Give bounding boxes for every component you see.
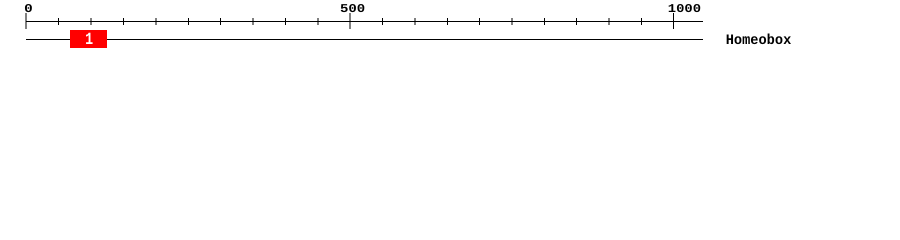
tick 900 bbox=[609, 18, 610, 25]
domain box 1 (red) bbox=[70, 30, 107, 48]
tick 700 bbox=[479, 18, 480, 25]
background bbox=[0, 0, 900, 58]
tick 50 bbox=[58, 18, 59, 25]
tick 400 bbox=[285, 18, 286, 25]
tick 550 bbox=[382, 18, 383, 25]
tick 650 bbox=[447, 18, 448, 25]
tick 450 bbox=[318, 18, 319, 25]
tick 750 bbox=[512, 18, 513, 25]
tick 250 bbox=[188, 18, 189, 25]
svg-text:1000: 1000 bbox=[668, 2, 701, 16]
svg-text:500: 500 bbox=[340, 2, 365, 16]
tick 500 (tall) bbox=[350, 13, 351, 29]
tick 800 bbox=[544, 18, 545, 25]
tick 100 bbox=[91, 18, 92, 25]
tick 950 bbox=[641, 18, 642, 25]
tick 350 bbox=[253, 18, 254, 25]
svg-text:1: 1 bbox=[85, 31, 93, 50]
tick 300 bbox=[220, 18, 221, 25]
ruler scale line bbox=[26, 21, 703, 22]
tick 1000 (tall) bbox=[673, 13, 674, 29]
sequence line bbox=[26, 39, 703, 40]
tick 600 bbox=[415, 18, 416, 25]
tick 200 bbox=[156, 18, 157, 25]
tick 150 bbox=[123, 18, 124, 25]
svg-text:0: 0 bbox=[24, 2, 33, 16]
svg-text:Homeobox: Homeobox bbox=[726, 33, 792, 49]
tick 0 (tall) bbox=[26, 13, 27, 29]
tick 850 bbox=[576, 18, 577, 25]
